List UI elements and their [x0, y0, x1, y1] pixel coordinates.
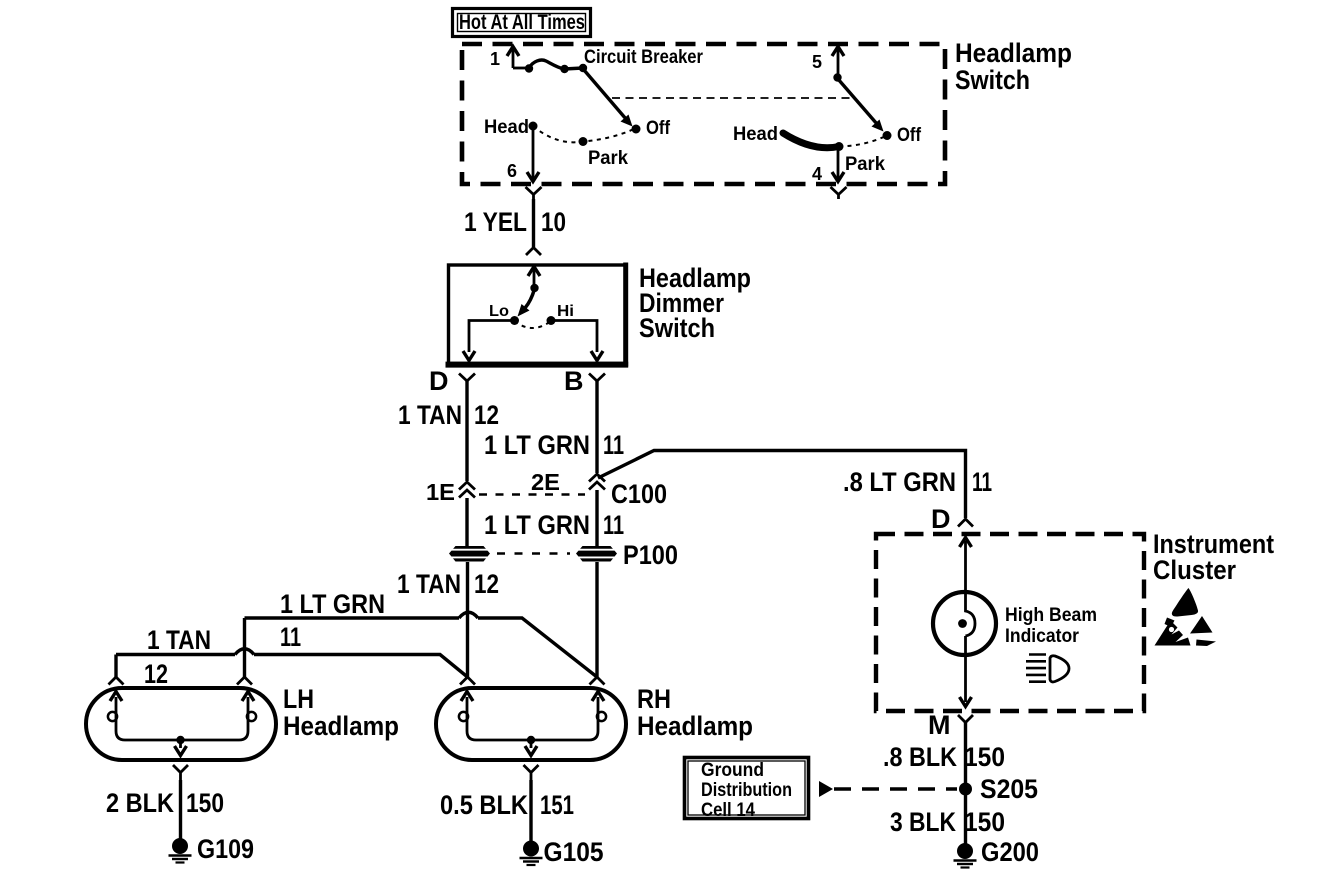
instrument cluster dashed box — [876, 534, 1144, 711]
svg-text:2E: 2E — [531, 469, 560, 495]
ground distribution box — [685, 758, 809, 819]
LH output connector Y — [173, 765, 188, 780]
LH right filament — [181, 692, 256, 741]
switch arm arrow right — [838, 79, 884, 132]
LH right terminal fork — [237, 677, 252, 685]
label Headlamp Switch — [955, 38, 1072, 95]
label Instrument Cluster — [1153, 529, 1274, 585]
dashed travel arc right — [839, 136, 886, 147]
svg-text:Indicator: Indicator — [1005, 626, 1080, 647]
svg-text:Head: Head — [733, 124, 778, 145]
label High Beam Indicator — [1005, 605, 1097, 647]
svg-text:Ground: Ground — [701, 760, 764, 781]
junction dot right — [579, 64, 587, 72]
LH left filament — [108, 692, 180, 741]
svg-text:C100: C100 — [611, 479, 667, 509]
svg-text:150: 150 — [964, 742, 1005, 772]
pin 6 connector Y — [526, 187, 542, 199]
branch wire to instrument cluster — [598, 451, 966, 519]
cluster output connector Y — [958, 715, 973, 723]
ground G200 — [954, 843, 977, 868]
svg-text:0.5 BLK: 0.5 BLK — [440, 790, 528, 820]
svg-text:Park: Park — [845, 154, 885, 175]
wire 2E down — [595, 490, 598, 546]
svg-text:G105: G105 — [544, 837, 604, 867]
svg-text:1 YEL: 1 YEL — [464, 207, 527, 237]
svg-text:P100: P100 — [623, 540, 678, 570]
ground G105 — [520, 841, 543, 866]
mechanical link dashed — [612, 97, 850, 99]
RH right filament — [531, 692, 606, 741]
contact Off left — [632, 125, 641, 134]
dimmer Lo output wire — [463, 321, 515, 361]
label LH Headlamp — [283, 684, 399, 741]
dimmer Hi output wire — [551, 321, 603, 361]
svg-text:Head: Head — [484, 117, 529, 138]
svg-text:1 TAN: 1 TAN — [147, 625, 211, 655]
RH output connector Y — [524, 765, 539, 780]
svg-text:Headlamp: Headlamp — [637, 711, 753, 741]
svg-text:1 TAN: 1 TAN — [397, 569, 461, 599]
svg-text:.8 BLK: .8 BLK — [883, 742, 957, 772]
grommet P100 right — [576, 546, 617, 562]
LH left terminal fork — [109, 677, 124, 685]
tan bus hop over lt grn drop — [235, 649, 254, 655]
svg-text:5: 5 — [812, 52, 822, 72]
high beam indicator bulb — [933, 592, 996, 655]
label RH Headlamp — [637, 684, 753, 741]
switch pivot dot right — [833, 73, 841, 81]
ESD symbol — [1155, 588, 1217, 646]
wire B lt grn — [595, 381, 598, 473]
svg-text:G109: G109 — [197, 834, 254, 864]
contact Park left — [579, 137, 588, 146]
svg-text:1 TAN: 1 TAN — [398, 400, 462, 430]
svg-text:10: 10 — [541, 207, 566, 237]
pin 6 wire down — [527, 126, 539, 182]
wire D tan — [465, 381, 468, 481]
ground distribution dashed link — [834, 787, 957, 790]
grommet P100 dashed link — [497, 552, 570, 555]
svg-text:1 LT GRN: 1 LT GRN — [280, 589, 385, 619]
svg-text:Headlamp: Headlamp — [955, 38, 1072, 68]
svg-text:12: 12 — [474, 569, 499, 599]
svg-text:B: B — [564, 366, 584, 396]
dimmer dashed arc — [515, 321, 552, 328]
svg-text:1: 1 — [490, 49, 500, 69]
terminal B connector Y — [589, 374, 605, 382]
wire 1 YEL 10 — [532, 199, 535, 247]
wire .8 BLK 150 — [964, 723, 967, 846]
wiper thick arc right — [783, 133, 839, 148]
RH common dot — [527, 736, 535, 744]
headlamp switch dashed box — [462, 44, 945, 184]
tan bus drop to LH left terminal — [114, 655, 117, 678]
svg-text:Switch: Switch — [639, 313, 715, 343]
splice S205 — [959, 783, 972, 796]
svg-text:RH: RH — [637, 684, 671, 714]
svg-text:LH: LH — [283, 684, 314, 714]
label Ground Distribution Cell 14 — [701, 760, 792, 821]
connector C100 terminal 2E chevrons — [589, 474, 605, 490]
svg-text:3 BLK: 3 BLK — [890, 807, 956, 837]
lt grn bus hop over tan wire — [459, 612, 478, 618]
wire end chevron at dimmer — [526, 248, 541, 256]
contact Hi — [547, 316, 556, 325]
hot-at-all-times box — [453, 9, 591, 37]
pin 4 connector Y — [831, 187, 847, 199]
tan bus horizontal — [116, 655, 468, 678]
cluster output wire — [960, 636, 972, 707]
lt grn bus horizontal — [245, 618, 598, 677]
contact Park right — [835, 142, 844, 151]
svg-text:Off: Off — [897, 125, 922, 146]
cluster input arrow — [960, 538, 972, 593]
circuit breaker coil — [529, 60, 583, 69]
svg-text:M: M — [928, 710, 951, 740]
svg-text:2 BLK: 2 BLK — [106, 788, 174, 818]
junction dot left — [525, 64, 533, 72]
svg-text:151: 151 — [540, 790, 574, 820]
wire 1E down — [465, 498, 468, 546]
grommet P100 left — [449, 546, 490, 562]
svg-text:S205: S205 — [980, 774, 1038, 804]
RH left terminal fork — [460, 677, 475, 685]
svg-text:Distribution: Distribution — [701, 780, 792, 801]
cluster input chevron — [958, 519, 973, 527]
svg-text:12: 12 — [144, 659, 168, 689]
svg-text:11: 11 — [972, 467, 992, 497]
headlamp beam icon — [1026, 655, 1069, 682]
svg-text:11: 11 — [603, 510, 624, 540]
dimmer input arrow — [528, 267, 540, 289]
svg-text:High Beam: High Beam — [1005, 605, 1097, 626]
connector C100 dashed link — [479, 493, 585, 496]
RH ground output arrow — [525, 740, 537, 756]
svg-text:1E: 1E — [426, 479, 455, 505]
LH common dot — [176, 736, 184, 744]
ground G109 — [169, 838, 192, 863]
contact Off right — [883, 131, 892, 140]
svg-text:.8 LT GRN: .8 LT GRN — [843, 467, 956, 497]
svg-text:D: D — [429, 366, 449, 396]
pin 5 arrow up — [832, 47, 844, 78]
svg-text:Switch: Switch — [955, 65, 1030, 95]
terminal D connector Y — [459, 374, 475, 382]
junction dot mid — [560, 65, 568, 73]
svg-text:1 LT GRN: 1 LT GRN — [484, 510, 590, 540]
pin 1 arrow up — [507, 47, 519, 69]
svg-text:11: 11 — [280, 622, 301, 652]
svg-text:11: 11 — [603, 430, 624, 460]
wire 2 BLK 150 — [179, 780, 182, 840]
connector C100 terminal 1E chevrons — [459, 482, 475, 498]
svg-text:150: 150 — [964, 807, 1005, 837]
wire 0.5 BLK 151 — [529, 780, 532, 843]
svg-text:Hi: Hi — [557, 303, 574, 320]
svg-text:Hot At All Times: Hot At All Times — [459, 11, 585, 34]
label Headlamp Dimmer Switch — [639, 263, 751, 343]
ground distribution arrow — [819, 781, 833, 797]
wire tan vertical to RH lamp — [466, 562, 469, 677]
headlamp dimmer switch box — [446, 263, 629, 367]
wire lt grn vertical to RH lamp — [595, 562, 598, 677]
RH right terminal fork — [590, 677, 605, 685]
contact Head left — [529, 122, 538, 131]
svg-text:1 LT GRN: 1 LT GRN — [484, 430, 590, 460]
svg-text:4: 4 — [812, 164, 822, 184]
svg-text:Lo: Lo — [489, 303, 509, 320]
svg-text:Cluster: Cluster — [1153, 555, 1236, 585]
LH ground output arrow — [175, 740, 187, 756]
svg-text:6: 6 — [507, 161, 517, 181]
dimmer pivot dot — [530, 284, 538, 292]
svg-text:Off: Off — [646, 118, 671, 139]
dimmer arm arrow — [518, 289, 535, 317]
svg-text:G200: G200 — [981, 837, 1039, 867]
contact Lo — [510, 316, 519, 325]
svg-text:Park: Park — [588, 148, 628, 169]
lt grn drop to LH right terminal — [243, 618, 246, 677]
svg-text:Circuit Breaker: Circuit Breaker — [584, 47, 704, 68]
RH headlamp body — [436, 688, 626, 760]
svg-text:150: 150 — [186, 788, 224, 818]
RH left filament — [459, 692, 531, 741]
svg-text:D: D — [931, 504, 951, 534]
switch arm arrow left — [584, 70, 633, 127]
pin 4 wire down — [832, 146, 844, 182]
dashed travel arc left — [533, 126, 634, 142]
svg-text:12: 12 — [474, 400, 499, 430]
LH headlamp body — [86, 688, 276, 760]
wire pin1 to circuit breaker — [513, 67, 527, 70]
svg-text:Headlamp: Headlamp — [283, 711, 399, 741]
svg-text:Cell 14: Cell 14 — [701, 800, 755, 821]
